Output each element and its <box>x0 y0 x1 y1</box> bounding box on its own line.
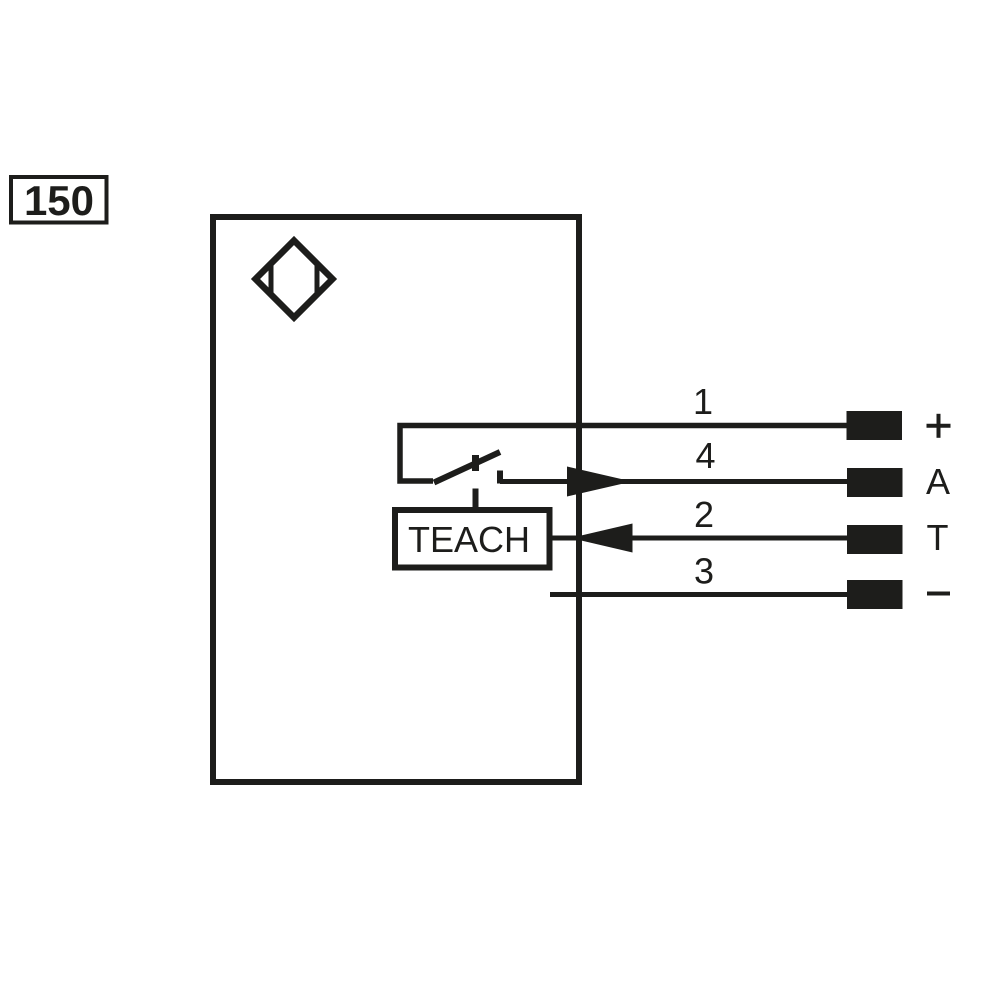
teach switch linkage dash crossing blade <box>472 455 479 471</box>
pin number 1 <box>693 381 713 422</box>
sensor body outline <box>213 217 579 782</box>
svg-text:TEACH: TEACH <box>408 519 530 560</box>
arrow on wire 2 pointing left <box>571 524 633 553</box>
svg-text:150: 150 <box>24 177 94 224</box>
svg-text:4: 4 <box>695 435 715 476</box>
teach switch right contact stub <box>497 471 503 484</box>
plus supply symbol <box>927 414 951 438</box>
wire 3 (- supply) <box>550 592 847 597</box>
pin number 4 <box>695 435 715 476</box>
terminal pin 3 <box>847 580 903 609</box>
wire 1 (+ supply, with left hook to switch) <box>400 426 847 482</box>
output net label A <box>926 461 950 502</box>
svg-text:A: A <box>926 461 950 502</box>
pin number 3 <box>694 551 714 592</box>
optical sensor symbol (diamond) <box>256 241 333 318</box>
svg-text:T: T <box>927 517 949 558</box>
svg-text:2: 2 <box>694 494 714 535</box>
terminal pin 1 <box>847 411 903 440</box>
teach net label T <box>927 517 949 558</box>
wire 4 (output A) <box>500 479 847 484</box>
terminal pin 2 <box>847 525 903 554</box>
TEACH function box <box>395 510 550 568</box>
teach switch blade <box>434 452 500 483</box>
terminal pin 4 <box>847 468 903 497</box>
teach switch linkage dash above TEACH box <box>473 489 479 509</box>
arrow on wire 4 pointing right <box>567 467 632 497</box>
pin number 2 <box>694 494 714 535</box>
svg-text:3: 3 <box>694 551 714 592</box>
figure number label 150 <box>11 177 107 224</box>
svg-text:1: 1 <box>693 381 713 422</box>
wire 2 (teach input T) <box>553 536 848 541</box>
minus supply symbol <box>927 592 950 596</box>
